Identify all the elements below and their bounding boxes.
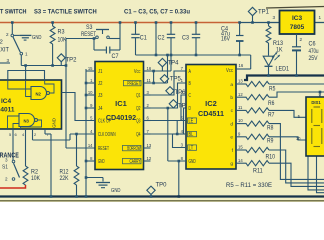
svg-text:a: a (230, 83, 233, 88)
svg-text:R5 – R11 = 330E: R5 – R11 = 330E (226, 182, 273, 189)
svg-text:N2: N2 (36, 92, 42, 97)
svg-text:TP1: TP1 (258, 9, 270, 16)
svg-text:CLK DOWN: CLK DOWN (98, 132, 116, 138)
svg-text:Q2: Q2 (136, 106, 140, 112)
svg-text:IC4: IC4 (1, 98, 12, 105)
svg-text:GND: GND (32, 35, 42, 41)
svg-text:IC2: IC2 (205, 99, 217, 108)
svg-text:1: 1 (25, 52, 28, 57)
svg-text:10: 10 (88, 90, 93, 95)
svg-text:D: D (189, 106, 191, 112)
svg-text:EXIT: EXIT (0, 48, 9, 54)
svg-text:10K: 10K (31, 176, 40, 182)
svg-text:13: 13 (147, 143, 152, 148)
svg-text:10K: 10K (58, 38, 67, 44)
svg-text:RESET: RESET (81, 32, 96, 38)
svg-text:2: 2 (300, 37, 303, 42)
svg-text:R9: R9 (267, 139, 274, 145)
svg-text:22K: 22K (60, 176, 69, 182)
svg-text:J1: J1 (98, 69, 102, 75)
svg-text:TP5: TP5 (170, 76, 182, 83)
svg-text:R3: R3 (58, 30, 66, 36)
svg-text:J4: J4 (98, 106, 102, 112)
svg-text:GND: GND (52, 118, 57, 128)
svg-text:10: 10 (238, 118, 243, 123)
svg-text:J2: J2 (98, 81, 102, 87)
svg-text:CLK UP: CLK UP (98, 119, 111, 125)
svg-text:T SWITCH: T SWITCH (0, 9, 27, 16)
svg-text:b: b (230, 95, 233, 101)
svg-text:ENTRANCE: ENTRANCE (0, 153, 19, 160)
svg-text:15: 15 (238, 145, 243, 150)
svg-text:16: 16 (239, 63, 244, 68)
svg-text:TP4: TP4 (168, 60, 180, 67)
svg-text:e: e (230, 136, 233, 141)
svg-text:11: 11 (147, 78, 152, 83)
svg-text:IC1: IC1 (115, 99, 127, 108)
svg-text:3: 3 (273, 15, 276, 20)
svg-text:C1: C1 (140, 36, 148, 42)
svg-text:GND: GND (98, 159, 105, 165)
svg-text:Q3: Q3 (136, 119, 140, 125)
svg-text:R13: R13 (273, 41, 284, 47)
svg-text:25V: 25V (309, 56, 318, 62)
svg-text:N3: N3 (24, 119, 30, 124)
svg-text:GND: GND (189, 159, 196, 165)
svg-text:S3: S3 (86, 25, 93, 31)
svg-text:CD4011: CD4011 (0, 107, 15, 114)
svg-text:C1 – C3, C5, C7 = 0.33u: C1 – C3, C5, C7 = 0.33u (124, 9, 190, 16)
svg-text:B: B (189, 81, 192, 87)
svg-text:S1: S1 (2, 165, 8, 171)
svg-text:C7: C7 (112, 54, 120, 60)
svg-text:RESET: RESET (98, 146, 109, 152)
svg-text:C: C (189, 93, 191, 99)
svg-text:Q1: Q1 (136, 93, 140, 99)
svg-text:10: 10 (296, 136, 301, 141)
svg-text:TP2: TP2 (66, 57, 78, 64)
svg-text:g: g (230, 162, 233, 167)
svg-text:1: 1 (319, 15, 322, 20)
svg-text:3: 3 (7, 58, 10, 63)
svg-text:C3: C3 (182, 36, 190, 42)
svg-text:R12: R12 (60, 170, 70, 176)
svg-text:Q4: Q4 (136, 132, 140, 138)
svg-text:GND: GND (111, 188, 121, 194)
svg-text:14: 14 (88, 143, 93, 148)
svg-text:S2: S2 (0, 40, 3, 46)
svg-text:2: 2 (5, 177, 8, 182)
svg-text:d: d (230, 121, 233, 127)
svg-text:TP0: TP0 (156, 182, 168, 189)
svg-text:12: 12 (147, 156, 152, 161)
svg-text:J3: J3 (98, 93, 102, 99)
svg-text:Vcc: Vcc (134, 69, 141, 75)
svg-text:IC3: IC3 (292, 15, 303, 22)
svg-text:R6: R6 (268, 101, 275, 107)
svg-text:C6: C6 (309, 42, 317, 48)
svg-text:LED1: LED1 (276, 67, 290, 73)
svg-text:R11: R11 (253, 169, 263, 175)
svg-text:A: A (189, 69, 192, 75)
svg-text:CD4511: CD4511 (198, 109, 224, 118)
svg-text:13: 13 (238, 79, 243, 84)
svg-text:R2: R2 (31, 170, 39, 176)
svg-text:16: 16 (147, 66, 152, 71)
svg-text:16V: 16V (221, 36, 230, 42)
svg-text:S3 = TACTILE SWITCH: S3 = TACTILE SWITCH (34, 9, 97, 16)
svg-text:R5: R5 (269, 87, 276, 93)
svg-text:2: 2 (6, 32, 9, 37)
svg-text:R7: R7 (268, 113, 275, 119)
svg-text:15: 15 (88, 66, 93, 71)
svg-text:7805: 7805 (290, 24, 305, 31)
svg-text:R10: R10 (266, 155, 276, 161)
svg-text:470u: 470u (309, 49, 319, 55)
svg-text:3: 3 (5, 158, 8, 163)
svg-text:C2: C2 (158, 36, 166, 42)
svg-text:14: 14 (238, 158, 243, 163)
svg-text:11: 11 (238, 105, 243, 110)
svg-text:R8: R8 (267, 126, 274, 132)
svg-text:Vcc: Vcc (226, 68, 233, 74)
svg-text:12: 12 (238, 92, 243, 97)
svg-text:DIS1: DIS1 (311, 100, 321, 105)
